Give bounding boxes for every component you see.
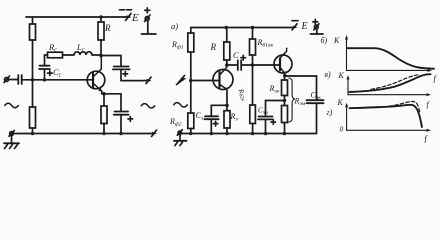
- node: emitter node (stage 2): [283, 74, 287, 78]
- svg-text:б): б): [321, 36, 328, 45]
- axes graph 1: [345, 35, 432, 72]
- node: rail junction R: [224, 26, 228, 30]
- resistor R (stage-1 load): [224, 28, 230, 66]
- node: base row C_c junction: [43, 78, 47, 82]
- wire: emitter to C_ek: [285, 76, 317, 100]
- node: collector junction: [99, 54, 103, 58]
- node: stage2 base node: [251, 63, 255, 67]
- wire: + terminal down lead (circuit b): [316, 29, 318, 34]
- svg-text:f: f: [425, 134, 429, 143]
- wire: base row (circuit a): [23, 79, 94, 81]
- resistor R_e (circuit a): [101, 94, 107, 134]
- svg-text:E: E: [301, 21, 308, 32]
- svg-text:Cэм: Cэм: [258, 107, 269, 117]
- svg-text:f: f: [427, 100, 431, 109]
- wire: coupling cap to output terminal: [121, 69, 145, 80]
- label ~ (circuit b input): [174, 103, 188, 107]
- wire: C_c lead down to base row: [44, 69, 46, 80]
- node: R_ek / R_em junction: [283, 99, 287, 103]
- svg-text:Rэм: Rэм: [294, 97, 306, 108]
- wire: C_em to bottom rail: [265, 119, 267, 133]
- terminal: output arrow with slash (circuit a): [145, 77, 152, 83]
- resistor R_ek: [282, 76, 288, 101]
- label + of C_e: [128, 117, 133, 122]
- capacitor C_e (stage 1): [204, 105, 218, 133]
- resistor R_f (top-left vertical): [30, 17, 36, 80]
- transistor VT1 (circuit a): [87, 56, 105, 94]
- label + of C: [241, 55, 246, 60]
- axes graph 3: [345, 103, 431, 132]
- label ~ between circuits (left): [141, 104, 155, 108]
- common bar under + terminal (circuit b): [311, 33, 324, 35]
- svg-text:К: К: [337, 98, 344, 107]
- svg-text:Cэ: Cэ: [196, 111, 204, 122]
- svg-text:Rб2к: Rб2к: [235, 87, 248, 103]
- node: emitter junction (circuit a): [102, 92, 106, 96]
- wire: bottom rail (circuit a): [12, 133, 151, 135]
- wire: base row (circuit b): [191, 80, 220, 82]
- curve graph 3 dashed: [389, 102, 420, 113]
- ground (circuit b): [174, 130, 187, 146]
- svg-text:f: f: [434, 74, 438, 83]
- svg-text:а): а): [171, 21, 178, 31]
- svg-text:Rэк: Rэк: [269, 84, 280, 95]
- transistor VT3 (circuit b, stage 2 follower): [274, 48, 292, 74]
- emitter network stage1: node: [225, 104, 229, 108]
- resistor R_c (horizontal): [45, 52, 63, 65]
- wire: + terminal down lead: [147, 21, 149, 34]
- wire: bottom rail (circuit b): [181, 133, 317, 135]
- capacitor: input coupling cap: [18, 75, 21, 84]
- resistor R_b1ak: [250, 28, 256, 66]
- capacitor C_e (circuit a): [114, 95, 129, 134]
- wire: to stage2 base: [253, 64, 281, 66]
- wire: circuit-a top supply rail: [26, 16, 124, 18]
- node: base node (circuit b): [189, 79, 193, 83]
- wire: interstage wire: [227, 64, 253, 66]
- node: stage1 collector node: [225, 63, 229, 67]
- wire: C_ek to bottom rail: [316, 103, 318, 133]
- terminal: -E arrow with slash (circuit b): [292, 24, 298, 30]
- capacitor C out (circuit a): [113, 67, 130, 70]
- svg-text:Cc: Cc: [53, 67, 62, 79]
- node: rail junction R_b1: [251, 26, 255, 30]
- svg-text:E: E: [131, 12, 139, 24]
- wire: input to coupling cap: [9, 79, 18, 81]
- wire: emitter row stage 1: [211, 104, 227, 106]
- resistor R_f2: [188, 81, 194, 134]
- wire: junction to C_em: [266, 101, 285, 117]
- label + of C_em: [271, 120, 275, 124]
- svg-text:Rб1ак: Rб1ак: [257, 38, 274, 49]
- label: minus dashes over E (circuit a): [120, 9, 132, 11]
- label ~ source (circuit a input): [5, 103, 19, 107]
- axes graph 2: [346, 75, 431, 96]
- node: base row R junction: [31, 78, 35, 82]
- resistor R_b2 (under stage-2 base node): [250, 65, 256, 134]
- svg-text:R: R: [104, 23, 111, 33]
- label + of supply (circuit b): [313, 19, 318, 24]
- terminal: + supply slashed terminal (circuit b): [314, 24, 319, 30]
- curve graph 3 solid: [350, 105, 422, 127]
- curve graph 2 dashed: [371, 75, 419, 90]
- terminal: bottom output arrow with slash (circuit a): [150, 130, 157, 136]
- curve graph 1: [347, 48, 434, 68]
- curve graph 2 solid: [350, 74, 431, 92]
- wire: top supply rail (circuit b): [191, 27, 293, 29]
- node: bottom rail junctions (circuit a): [31, 132, 35, 136]
- svg-text:0: 0: [340, 125, 344, 134]
- svg-text:R: R: [210, 42, 217, 52]
- label + of C_e (stage 1): [213, 121, 218, 126]
- svg-text:К: К: [333, 36, 340, 45]
- svg-text:в): в): [325, 70, 331, 79]
- common bar under + terminal (circuit a): [142, 33, 157, 35]
- label + of supply (circuit a): [145, 8, 150, 13]
- label minus dash (circuit b): [292, 20, 298, 22]
- capacitor C_c plates: [39, 66, 50, 69]
- svg-text:К: К: [338, 71, 345, 80]
- wire: emitter row: [102, 93, 121, 95]
- brace over emitter resistors: [289, 78, 295, 122]
- node: top rail / R junction: [99, 15, 103, 19]
- resistor R_em (lower): [282, 101, 288, 134]
- capacitor C_ek: [307, 100, 324, 103]
- terminal: -E arrow with slash (circuit a): [124, 14, 132, 21]
- ground (circuit a): [4, 130, 19, 148]
- resistor R_f1: [188, 28, 194, 81]
- transistor VT2 (circuit b, stage 1): [213, 65, 233, 105]
- svg-text:Rф1: Rф1: [171, 40, 184, 51]
- resistor R_lower (bias, circuit a): [30, 80, 36, 134]
- label + of C out: [123, 72, 128, 77]
- label + of C_c: [48, 71, 53, 76]
- terminal: input (circuit a): [4, 76, 10, 83]
- capacitor C (interstage coupling): [238, 60, 241, 70]
- resistor R_e (stage 1): [224, 105, 230, 133]
- terminal: input arrow with slash (circuit b): [177, 76, 187, 85]
- terminal: + supply slashed terminal (circuit a): [145, 15, 151, 22]
- capacitor C_em: [258, 117, 273, 120]
- node: bottom rail junctions (circuit b): [189, 132, 193, 136]
- svg-text:Rф2: Rф2: [169, 117, 182, 128]
- inductor L_c: [63, 52, 102, 55]
- resistor R (collector load): [98, 17, 104, 56]
- wire: output tap to coupling cap: [101, 56, 121, 67]
- svg-text:C: C: [233, 50, 239, 60]
- svg-text:г): г): [327, 108, 333, 117]
